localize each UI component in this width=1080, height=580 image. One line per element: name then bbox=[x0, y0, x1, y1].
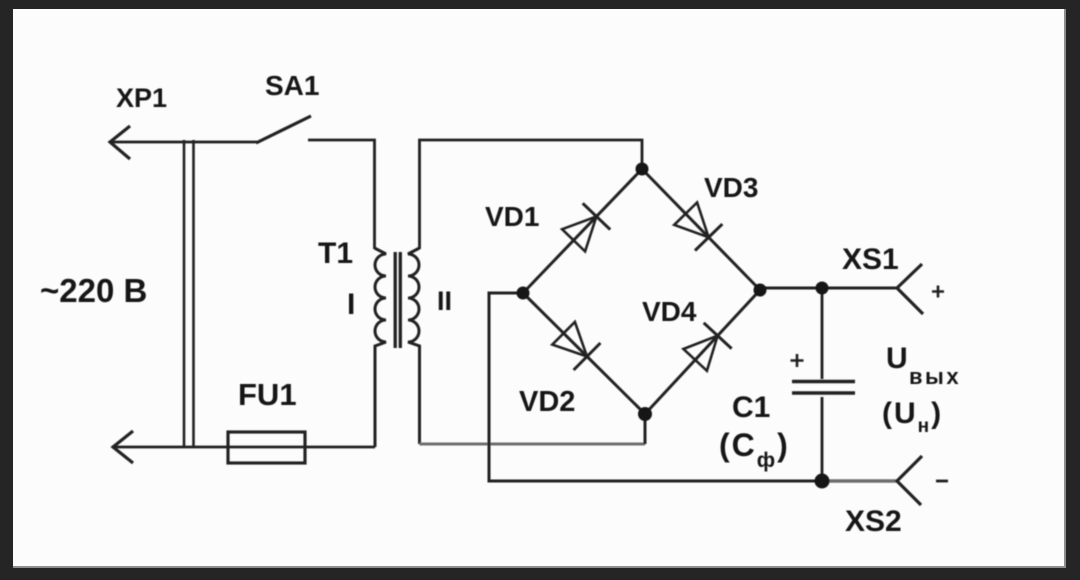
svg-text:C1: C1 bbox=[732, 391, 770, 424]
svg-text:SA1: SA1 bbox=[265, 70, 319, 101]
svg-text:(Uн): (Uн) bbox=[882, 397, 943, 437]
svg-text:FU1: FU1 bbox=[238, 377, 297, 412]
svg-text:U: U bbox=[886, 342, 908, 375]
svg-text:~220 В: ~220 В bbox=[40, 272, 147, 309]
svg-text:VD3: VD3 bbox=[704, 172, 758, 203]
svg-text:VD4: VD4 bbox=[642, 296, 697, 327]
svg-text:(Cф): (Cф) bbox=[719, 427, 790, 472]
svg-text:I: I bbox=[347, 288, 355, 321]
svg-text:T1: T1 bbox=[318, 237, 353, 270]
svg-text:вых: вых bbox=[909, 364, 961, 389]
svg-text:VD1: VD1 bbox=[485, 201, 539, 232]
svg-text:XP1: XP1 bbox=[116, 83, 167, 113]
svg-text:VD2: VD2 bbox=[519, 386, 575, 418]
svg-text:XS2: XS2 bbox=[845, 505, 902, 538]
svg-text:XS1: XS1 bbox=[842, 243, 899, 276]
svg-text:II: II bbox=[437, 286, 452, 316]
